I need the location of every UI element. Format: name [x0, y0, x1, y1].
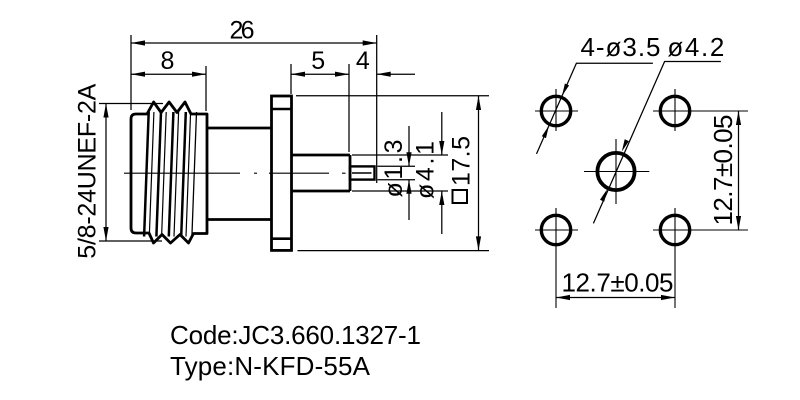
- dim 5 insulator length: [290, 64, 292, 94]
- svg-text:ø1.3: ø1.3: [380, 140, 408, 198]
- coupling nut body outline with thread profile: [131, 102, 207, 243]
- dim square 17.5 flange size: [296, 95, 489, 97]
- svg-text:4: 4: [356, 47, 370, 75]
- dim 5/8-24UNEF-2A thread spec: [99, 103, 163, 105]
- svg-text:ø4.1: ø4.1: [412, 141, 440, 199]
- mounting hole 3: [541, 215, 570, 244]
- centerline left view: [124, 172, 240, 174]
- mounting hole 2: [660, 96, 689, 125]
- square mounting flange (side view): [272, 96, 292, 250]
- svg-text:26: 26: [230, 17, 255, 45]
- svg-text:Code:JC3.660.1327-1: Code:JC3.660.1327-1: [170, 320, 421, 350]
- dim 12.7 hole spacing bottom: [556, 297, 675, 299]
- svg-text:ø4.2: ø4.2: [667, 32, 724, 62]
- svg-text:5: 5: [311, 47, 325, 75]
- dim dia 4.1 insulator: [352, 154, 448, 156]
- thread flank hatch lines: [144, 112, 149, 237]
- svg-text:12.7±0.05: 12.7±0.05: [708, 115, 738, 226]
- center hole dia 4.2: [597, 153, 634, 190]
- dim 26 overall length: [130, 35, 132, 110]
- center contact jack: [350, 166, 375, 179]
- leader dia4.2: [593, 62, 721, 224]
- connector body cylinder: [207, 127, 272, 130]
- svg-text:8: 8: [160, 47, 174, 75]
- dim 12.7 hole spacing right: [738, 111, 740, 230]
- mounting hole 1: [541, 96, 570, 125]
- dim dia 1.3 contact: [378, 165, 416, 167]
- dim 8 nut length: [205, 66, 207, 111]
- svg-text:Type:N-KFD-55A: Type:N-KFD-55A: [170, 351, 371, 381]
- mounting hole 4: [660, 215, 689, 244]
- dim 4 contact length: [377, 73, 415, 75]
- leader 4-dia3.5: [537, 63, 653, 154]
- insulator bushing: [292, 154, 351, 157]
- svg-text:12.7±0.05: 12.7±0.05: [562, 268, 674, 298]
- hole centerline ticks: [535, 110, 578, 112]
- svg-text:5/8-24UNEF-2A: 5/8-24UNEF-2A: [74, 83, 102, 258]
- svg-text:4-ø3.5: 4-ø3.5: [581, 32, 661, 62]
- svg-text:17.5: 17.5: [448, 136, 476, 186]
